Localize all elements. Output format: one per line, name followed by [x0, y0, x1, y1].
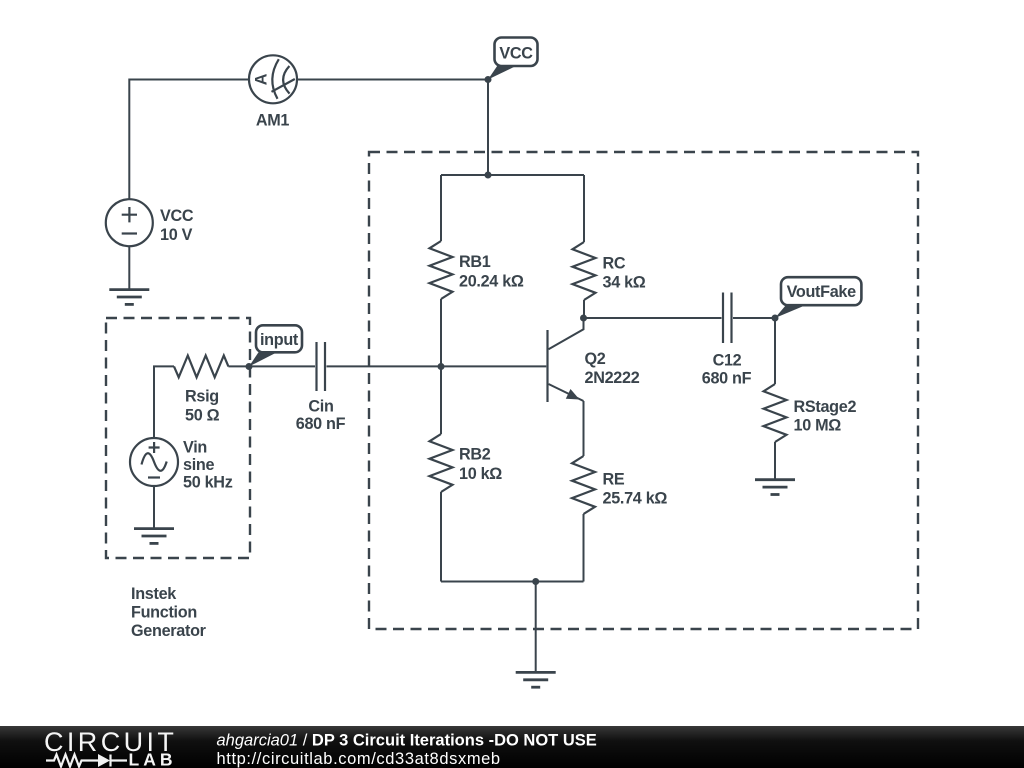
node dot top rail [485, 172, 492, 179]
dashed box: amplifier stage [369, 152, 918, 629]
resistor RB1 [430, 241, 453, 299]
svg-text:20.24 kΩ: 20.24 kΩ [459, 273, 524, 291]
svg-text:sine: sine [183, 456, 214, 474]
ammeter AM1 [249, 55, 297, 103]
wire: VCC node down to rail [487, 80, 489, 176]
resistor RStage2 [764, 384, 787, 442]
svg-text:680 nF: 680 nF [702, 370, 752, 388]
wire: bottom rail [441, 581, 584, 583]
wire: collector to C12 [584, 317, 722, 319]
ground under RStage2 [755, 480, 795, 495]
svg-text:RB1: RB1 [459, 253, 491, 271]
resistor Rsig [174, 356, 228, 378]
svg-text:Q2: Q2 [585, 350, 606, 368]
node VoutFake flag [775, 277, 861, 318]
wire: Vin bottom to ground [153, 486, 155, 529]
wire: ground stem [535, 582, 537, 673]
source Vin sine [130, 438, 178, 486]
wire: RB2 bottom lead [440, 492, 442, 582]
wire: RB1 bottom to junction to RB2 [440, 299, 442, 434]
resistor RE [572, 456, 595, 514]
capacitor C12 [723, 293, 732, 344]
voltage source VCC [106, 199, 153, 246]
ground main [516, 672, 556, 687]
resistor RC [573, 242, 596, 300]
svg-text:RC: RC [603, 255, 626, 273]
svg-text:Function: Function [131, 604, 197, 622]
ground under Vin [134, 529, 174, 544]
wire: RB1 top lead [440, 175, 442, 241]
svg-text:RStage2: RStage2 [794, 398, 857, 416]
wire: C12 to VoutFake node [733, 317, 775, 319]
svg-text:RE: RE [603, 471, 625, 489]
node dot base/RB junction [438, 363, 445, 370]
svg-text:VCC: VCC [160, 207, 194, 225]
svg-text:10 V: 10 V [160, 226, 193, 244]
svg-text:input: input [260, 331, 299, 349]
svg-text:RB2: RB2 [459, 446, 491, 464]
svg-text:Generator: Generator [131, 622, 207, 640]
node input flag [249, 325, 302, 366]
svg-text:Instek: Instek [131, 585, 177, 603]
node dot collector [580, 315, 587, 322]
node dot VoutFake [772, 315, 779, 322]
node dot bottom rail [532, 578, 539, 585]
wire: RC bottom to collector node [583, 300, 585, 318]
svg-text:50 kHz: 50 kHz [183, 474, 233, 492]
svg-text:50 Ω: 50 Ω [185, 407, 220, 425]
node dot input [246, 363, 253, 370]
resistor RB2 [430, 434, 453, 492]
svg-text:VCC: VCC [499, 44, 533, 62]
wire: Vin to Rsig [154, 366, 174, 438]
svg-text:VoutFake: VoutFake [787, 283, 857, 301]
svg-text:http://circuitlab.com/cd33at8d: http://circuitlab.com/cd33at8dsxmeb [217, 750, 501, 768]
svg-text:C12: C12 [713, 352, 742, 370]
svg-text:Vin: Vin [183, 439, 207, 457]
ground under VCC source [109, 290, 149, 305]
svg-text:AM1: AM1 [256, 112, 290, 130]
svg-text:34 kΩ: 34 kΩ [603, 274, 646, 292]
capacitor Cin [317, 342, 326, 391]
wire: VCC source bottom to ground [128, 246, 130, 289]
footer bar [0, 726, 1024, 768]
wire: RC top lead [583, 175, 585, 242]
svg-text:2N2222: 2N2222 [585, 369, 640, 387]
wire: Rsig to input node [228, 365, 249, 367]
svg-text:Cin: Cin [308, 398, 333, 416]
wire: top rail [441, 174, 584, 176]
wire: input node to Cin [249, 365, 315, 367]
dashed box: function generator [106, 318, 250, 558]
svg-text:Rsig: Rsig [185, 388, 219, 406]
svg-text:10 kΩ: 10 kΩ [459, 465, 502, 483]
svg-text:ahgarcia01 / DP 3 Circuit Iter: ahgarcia01 / DP 3 Circuit Iterations -DO… [217, 731, 597, 749]
svg-text:680 nF: 680 nF [296, 415, 346, 433]
wire: ammeter to VCC node [297, 79, 488, 81]
wire: VCC source top to top rail corner [129, 80, 249, 200]
svg-text:A: A [253, 73, 271, 85]
svg-text:LAB: LAB [129, 750, 177, 768]
svg-text:10 MΩ: 10 MΩ [794, 417, 842, 435]
svg-text:25.74 kΩ: 25.74 kΩ [603, 490, 668, 508]
wire: RE bottom lead [583, 514, 585, 582]
wire: RStage2 to ground [774, 442, 776, 480]
wire: Cin to base [327, 365, 547, 367]
node dot VCC top [485, 76, 492, 83]
transistor Q2 [548, 318, 584, 456]
logo resistor-diode glyph [46, 755, 127, 767]
node VCC flag [488, 38, 538, 80]
wire: VoutFake to RStage2 [774, 318, 776, 384]
